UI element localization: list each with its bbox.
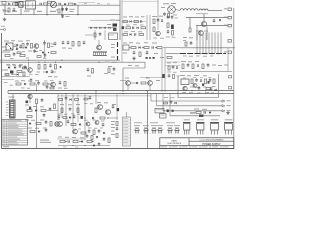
label IC1 — [123, 17, 127, 18]
capacitor C42 — [98, 130, 101, 132]
capacitor C38 — [112, 105, 115, 107]
resistor R60 — [87, 141, 92, 143]
wire — [129, 47, 131, 49]
label bl3 — [84, 119, 88, 122]
wire — [140, 77, 163, 79]
dark mark bc1 — [81, 116, 83, 119]
output terminal J2 — [228, 16, 231, 19]
label right bus — [183, 37, 187, 38]
label c53 — [175, 17, 179, 20]
smudge mid2 — [123, 53, 127, 54]
capacitor C44 — [103, 138, 106, 140]
wire — [151, 100, 222, 102]
transistor Q17 — [144, 128, 148, 130]
resistor R13 — [51, 52, 56, 54]
transistor Q12 — [98, 105, 103, 110]
resistor R74 — [173, 75, 175, 79]
resistor R57 — [93, 130, 95, 135]
capacitor C55 — [167, 30, 170, 32]
bridge rectifier BR1 — [6, 43, 13, 50]
wire — [121, 0, 123, 62]
resistor R12 — [48, 43, 50, 48]
resistor R26 — [44, 65, 46, 70]
diode D14 — [136, 82, 138, 84]
ground — [133, 57, 135, 59]
resistor R2 — [44, 3, 48, 5]
capacitor C17 — [151, 46, 153, 48]
capacitor C70 — [98, 143, 101, 145]
wire — [122, 21, 146, 23]
resistor R4 — [8, 8, 10, 12]
capacitor C43 — [67, 140, 69, 142]
transistor Q19 — [158, 128, 162, 130]
title block divider vertical — [188, 138, 190, 146]
wire — [165, 61, 180, 63]
resistor R62 — [116, 122, 118, 126]
wire — [29, 94, 31, 103]
wire — [227, 48, 229, 72]
parts under T2 — [163, 13, 166, 15]
resistor R85 — [5, 74, 9, 76]
wire — [20, 9, 22, 16]
smudge117 — [111, 44, 115, 45]
diode D3 — [130, 20, 132, 22]
resistor R56 — [81, 132, 86, 134]
capacitor C47 — [61, 8, 64, 10]
capacitor C31 — [209, 79, 212, 81]
smudge blockb2 — [182, 91, 186, 94]
transistor Q7 — [126, 81, 131, 86]
label mid low2 — [58, 113, 62, 116]
wire — [12, 94, 14, 100]
wire — [4, 5, 6, 15]
wire — [196, 13, 208, 15]
wire — [146, 148, 148, 150]
smudge left low2 — [28, 128, 32, 129]
label AC IN — [3, 11, 9, 12]
label q9 — [190, 86, 194, 89]
label block — [181, 61, 186, 62]
connector pin numbers — [6, 101, 9, 104]
label bc4 — [84, 102, 88, 105]
wire — [2, 79, 14, 81]
wire — [84, 94, 86, 140]
capacitor C50 — [99, 33, 102, 35]
capacitor C6 — [13, 8, 16, 10]
label blockb3 — [183, 77, 186, 80]
capacitor C35 — [43, 114, 46, 116]
wire — [190, 112, 196, 114]
wire — [0, 4, 120, 6]
transistor Q8 — [148, 81, 153, 86]
label row — [123, 43, 127, 44]
resistor R27 — [55, 65, 57, 70]
terminal J4 — [228, 40, 231, 43]
wire — [44, 40, 46, 58]
capacitor C67 — [11, 72, 14, 74]
wire — [156, 94, 158, 106]
block right border — [218, 74, 220, 98]
capacitor C65 — [86, 135, 89, 137]
node B3 — [62, 16, 64, 18]
resistor R18 — [131, 47, 136, 49]
resistor R33 — [202, 64, 204, 69]
label lower2 — [87, 76, 91, 77]
node D — [48, 52, 49, 53]
resistor R47 — [27, 116, 32, 118]
diode D12 — [197, 65, 199, 67]
diode D36 — [96, 136, 98, 138]
capacitor C28 — [37, 82, 40, 84]
resistor R78 — [37, 56, 41, 58]
diode D32 — [46, 71, 48, 73]
resistor R79 — [168, 14, 170, 18]
resistor R17 — [78, 42, 80, 47]
smudges mid — [3, 50, 7, 51]
inductor L1 — [19, 2, 23, 7]
wire — [98, 40, 100, 45]
dark comp 1 — [10, 71, 13, 74]
transistor Q25 — [224, 122, 233, 124]
svg-text:DAVO: DAVO — [172, 139, 178, 142]
label bl4 — [57, 118, 60, 121]
terminal strip CN2 — [123, 117, 131, 146]
ground — [4, 18, 6, 20]
label cl152 — [152, 16, 157, 17]
wire — [163, 47, 180, 49]
diode D37 — [215, 89, 217, 91]
resistor R43 — [36, 99, 38, 104]
capacitor C18 — [133, 51, 136, 53]
smudge left low — [25, 120, 29, 121]
transistor Q10 — [28, 94, 32, 98]
transistor Q18 — [152, 128, 156, 130]
capacitor C59 — [33, 50, 36, 52]
label lower1 — [37, 72, 41, 73]
wire — [163, 110, 222, 112]
capacitor C14 — [62, 41, 65, 43]
output terminal J1 — [228, 8, 231, 11]
label under t2 — [173, 14, 177, 17]
wire — [57, 138, 85, 140]
wire — [2, 76, 30, 78]
terminal J7 — [229, 87, 232, 89]
label k1 — [109, 34, 114, 37]
wire — [119, 0, 121, 40]
wire — [36, 104, 38, 149]
capacitor C22 — [49, 64, 52, 66]
resistor R24 — [17, 71, 22, 73]
dark mark fan2 — [172, 110, 174, 112]
wire — [0, 0, 30, 2]
capacitor C1 — [8, 3, 10, 5]
diode D8 — [8, 66, 10, 68]
label ab3 — [44, 80, 48, 83]
resistor R48 — [36, 123, 41, 125]
node N2 — [84, 145, 85, 146]
wire — [130, 82, 136, 84]
resistor R80 — [23, 67, 27, 69]
label row2 — [126, 24, 130, 27]
capacitor C20 — [190, 42, 193, 44]
diode D18 — [38, 130, 40, 132]
capacitor C66 — [210, 87, 213, 89]
resistor R54 — [77, 108, 79, 113]
label cluster1 — [4, 41, 9, 42]
resistor R88 — [50, 87, 54, 89]
wire — [126, 112, 128, 117]
capacitor C63 — [58, 115, 61, 117]
wire — [90, 19, 120, 21]
resistor R19 — [144, 47, 149, 49]
optocoupler U2 — [123, 45, 129, 50]
diode D15 — [200, 80, 202, 82]
label mid fill — [14, 44, 17, 47]
wire — [58, 95, 151, 97]
resistor R20 — [157, 47, 162, 49]
resistor R82 — [75, 99, 79, 101]
diode D39 — [93, 144, 95, 146]
label s57 — [56, 10, 59, 11]
diode D13 — [24, 83, 26, 85]
label right of cluster — [111, 121, 115, 122]
capacitor C36 — [45, 121, 48, 123]
transistor Q15 — [73, 129, 78, 134]
terminal J6 — [229, 76, 232, 78]
label d8 — [7, 64, 11, 67]
resistor R45 — [41, 110, 46, 112]
transistor Q26 — [156, 31, 161, 36]
label c55 — [166, 36, 170, 39]
resistor R84 — [91, 136, 93, 140]
resistor R75 — [213, 79, 215, 84]
sheet border bottom — [2, 148, 235, 150]
dark mark fan1 — [167, 110, 169, 113]
transformer T2 — [168, 6, 176, 14]
capacitor C7 — [213, 19, 216, 21]
resistor R59 — [73, 141, 78, 143]
transistor Q3 — [34, 44, 39, 49]
capacitor C34 — [49, 108, 52, 110]
sheet border right — [233, 8, 235, 149]
connector CN1 — [10, 100, 16, 118]
dark component pack — [113, 24, 118, 27]
capacitor C53 — [167, 16, 170, 18]
wire — [36, 148, 38, 150]
wire — [77, 94, 79, 122]
transistor Q6 — [51, 82, 56, 87]
node M — [107, 117, 108, 118]
smudge ab2 — [58, 88, 62, 89]
diode D1 — [64, 3, 66, 5]
label under table — [3, 146, 9, 147]
resistor R71 — [153, 27, 155, 32]
diode D21 — [103, 132, 105, 134]
resistor R55 — [71, 124, 76, 126]
label cl166b — [167, 71, 171, 74]
diode D22 — [81, 140, 83, 142]
capacitor C46 — [203, 111, 205, 113]
label fan3 — [190, 112, 195, 115]
svg-text:C.C.U. CIRCUIT/SCHEMATIC: C.C.U. CIRCUIT/SCHEMATIC — [199, 139, 224, 142]
resistor R31 — [182, 64, 184, 69]
resistor R32 — [192, 64, 194, 69]
label cl166 — [167, 62, 171, 65]
resistor R76 — [48, 1, 52, 3]
capacitor C25 — [172, 66, 175, 68]
capacitor C57 — [51, 70, 54, 72]
capacitor C39 — [69, 108, 72, 110]
heatsink HS1 — [93, 51, 107, 53]
wire — [28, 62, 30, 67]
transistor Q13 — [106, 110, 111, 115]
diode D4 — [16, 44, 18, 46]
transistor Q11 — [55, 122, 60, 127]
dark mark row2 — [122, 26, 125, 29]
label q26 — [153, 37, 157, 40]
wire — [146, 15, 148, 40]
diode row D24-D28 — [90, 27, 92, 29]
resistor R53 — [61, 108, 63, 113]
label q12 — [97, 102, 101, 103]
wire — [150, 94, 152, 101]
wire — [161, 48, 163, 92]
resistor R87 — [84, 98, 88, 100]
label cl166c — [177, 75, 180, 78]
wire — [4, 14, 120, 16]
diode D23 — [209, 111, 211, 113]
capacitor C9 — [140, 20, 142, 22]
resistor R25 — [38, 65, 40, 70]
wire — [2, 46, 6, 48]
diode D6 — [42, 51, 44, 53]
label bc5 — [63, 146, 67, 149]
node L — [36, 110, 37, 111]
label mid low — [60, 104, 64, 105]
diode D38 — [17, 73, 19, 75]
terminal arrow 2 — [222, 105, 225, 107]
wire — [7, 91, 9, 94]
capacitor C48 — [65, 8, 68, 10]
wire — [0, 61, 145, 63]
capacitor C27 — [207, 64, 210, 66]
capacitor C40 — [67, 120, 70, 122]
wire — [206, 27, 208, 41]
wire — [164, 48, 166, 92]
inductor L3 — [199, 9, 208, 11]
smudge bl — [58, 137, 62, 138]
resistor R23 — [185, 42, 187, 46]
label row3 — [124, 30, 128, 33]
terminal left edge — [0, 29, 4, 31]
transistor Q1 — [201, 21, 206, 26]
resistor R89 — [164, 102, 168, 104]
resistor R64 — [196, 112, 201, 114]
label left mid — [25, 105, 29, 106]
capacitor C13 — [13, 53, 16, 55]
label gnd left — [2, 10, 6, 11]
transistor Q14 — [58, 122, 63, 127]
resistor R58 — [60, 141, 65, 143]
wire — [203, 14, 205, 22]
wire — [13, 46, 16, 48]
diode D40 — [175, 102, 177, 104]
sheet border left — [1, 33, 3, 149]
capacitor C41 — [88, 130, 91, 132]
dark tick 1 — [117, 42, 119, 47]
label under r27 — [48, 76, 52, 77]
diode D33 — [25, 46, 27, 48]
resistor R15 — [20, 55, 25, 57]
transistor Q29 — [95, 121, 99, 125]
diode D10 — [59, 66, 61, 68]
diode D9 — [14, 66, 16, 68]
capacitor C12 — [54, 42, 57, 44]
wire — [2, 69, 8, 71]
dark mark c54 — [171, 25, 174, 30]
wire — [47, 110, 58, 112]
label left bus area — [4, 81, 8, 84]
resistor R61 — [108, 138, 110, 143]
diode D11 — [176, 67, 178, 69]
capacitor C64 — [73, 115, 76, 117]
dark mark 163 — [162, 74, 164, 78]
label c47 — [70, 9, 75, 10]
resistor R46 — [54, 104, 56, 109]
resistor R73 — [172, 31, 174, 36]
diode D2 — [219, 19, 221, 21]
svg-text:ELECTRONICS: ELECTRONICS — [168, 143, 182, 145]
ground — [227, 111, 229, 113]
switch SW1 — [160, 114, 167, 118]
output terminal J3 — [228, 24, 231, 27]
title block divider bottom row — [160, 145, 234, 147]
transistor Q23 — [196, 122, 205, 124]
node H — [38, 62, 39, 63]
resistor R6 — [189, 28, 191, 32]
thermistor TH1 — [50, 2, 56, 8]
transistor Q5 — [28, 68, 33, 73]
capacitor C24 — [113, 68, 116, 70]
diode D31 — [161, 20, 163, 22]
resistor R14 — [5, 55, 10, 57]
capacitor C5 — [74, 3, 76, 5]
resistor R7 — [153, 19, 155, 24]
capacitor C52 — [134, 33, 136, 35]
parts table — [2, 120, 28, 146]
wire — [162, 94, 164, 111]
resistor R42 — [206, 88, 211, 90]
terminal J5 — [228, 51, 231, 54]
relay box K1 — [109, 33, 118, 40]
resistor R83 — [63, 117, 67, 119]
wire bus verticals — [196, 33, 198, 54]
node A — [46, 5, 47, 6]
wire — [61, 94, 63, 118]
diode D20 — [79, 123, 81, 125]
relay RY1 — [155, 108, 164, 113]
wire — [61, 5, 63, 15]
transistor Q16 — [135, 128, 139, 130]
transistor Q22 — [183, 122, 191, 124]
wire — [78, 2, 95, 4]
transistor Q28 — [86, 122, 90, 126]
wire — [77, 5, 79, 15]
diode D34 — [70, 98, 72, 100]
title block bottom cells — [169, 146, 171, 149]
capacitor C15 — [67, 41, 70, 43]
capacitor C33 — [41, 99, 44, 101]
